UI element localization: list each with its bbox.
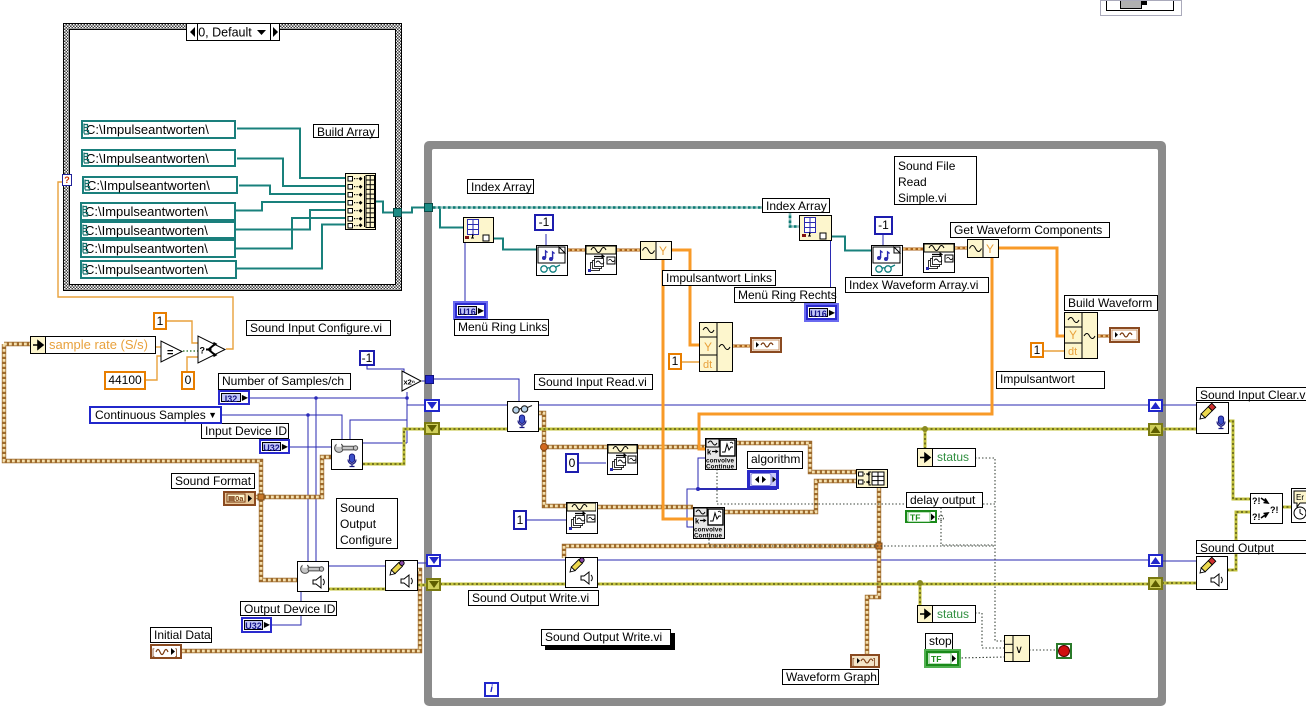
svg-text:Y: Y: [1069, 328, 1077, 342]
svg-text:Er: Er: [1296, 493, 1304, 502]
svg-text:TF: TF: [910, 513, 920, 523]
svg-text:[: [: [152, 647, 155, 657]
svg-text:TF: TF: [931, 654, 941, 664]
svg-text:dt: dt: [1068, 346, 1077, 358]
svg-text:=: =: [167, 347, 173, 359]
svg-text:?!: ?!: [1270, 505, 1279, 515]
svg-text:∨: ∨: [1015, 644, 1023, 656]
svg-text:?!: ?!: [1252, 496, 1261, 506]
svg-text:Y: Y: [986, 242, 994, 256]
svg-text:[: [: [852, 657, 855, 667]
svg-text:]: ]: [175, 647, 178, 657]
svg-text:▤0a: ▤0a: [228, 494, 244, 503]
svg-text:Y: Y: [704, 340, 712, 354]
svg-text:?!: ?!: [1252, 512, 1261, 522]
svg-text:k: k: [695, 517, 700, 526]
svg-text:0, Default: 0, Default: [198, 26, 252, 40]
svg-text:]: ]: [873, 657, 876, 667]
svg-text:Y: Y: [659, 244, 667, 258]
svg-text:Continue: Continue: [694, 533, 722, 539]
svg-text:dt: dt: [703, 359, 712, 371]
svg-text:x2ⁿ: x2ⁿ: [404, 378, 415, 387]
svg-text:?: ?: [200, 346, 206, 356]
svg-text:Continue: Continue: [706, 464, 734, 470]
svg-text:k: k: [707, 448, 712, 457]
